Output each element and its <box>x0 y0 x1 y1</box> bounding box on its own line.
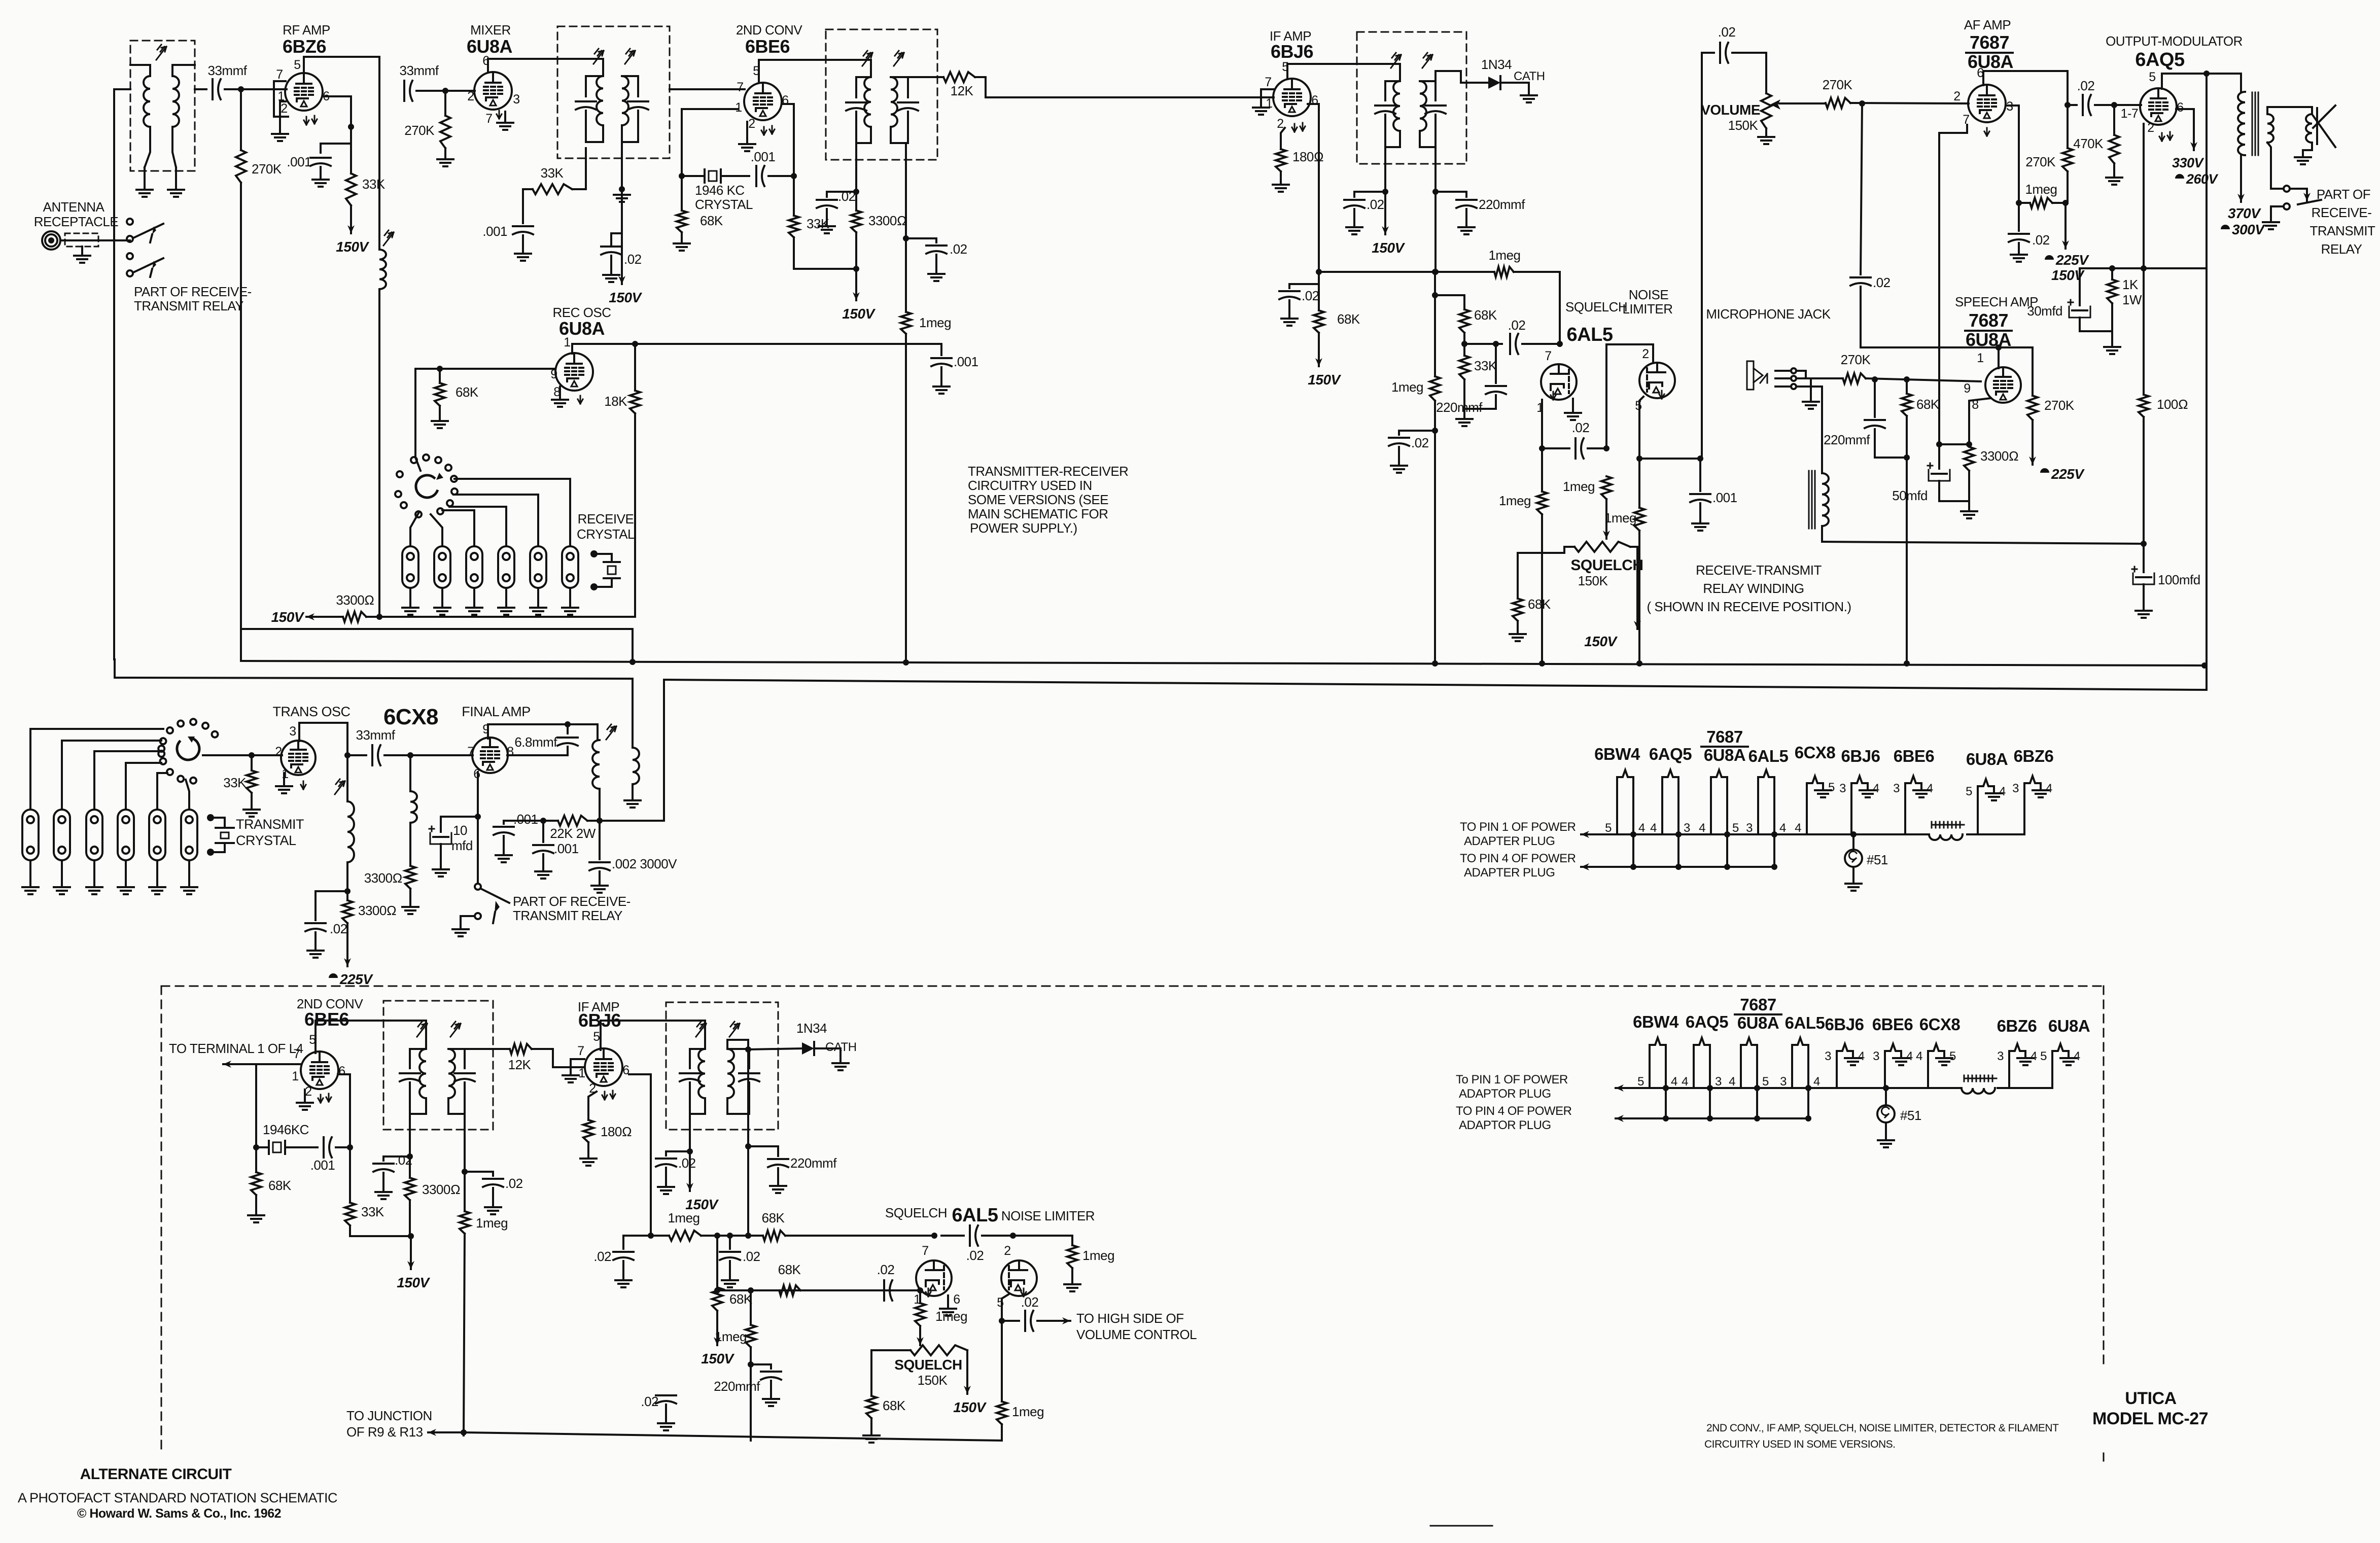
ground <box>1815 790 1831 797</box>
68K label <box>268 1178 292 1193</box>
note CIRCUITRY USED IN <box>968 478 1092 493</box>
pin 1 <box>564 335 570 349</box>
svg-text:3300Ω: 3300Ω <box>422 1182 460 1197</box>
pin 1 <box>1977 351 1983 365</box>
wire <box>1001 1424 1003 1441</box>
svg-text:68K: 68K <box>1474 307 1497 323</box>
wire <box>2303 143 2312 150</box>
svg-text:PART OF: PART OF <box>2317 187 2370 202</box>
ground <box>1064 1268 1080 1291</box>
pin 2 <box>1953 89 1960 103</box>
RELAY label <box>2321 241 2362 257</box>
bus pin1 <box>1581 831 1929 838</box>
wire <box>1906 416 1908 663</box>
junction <box>1697 455 1703 462</box>
junction <box>748 1361 754 1367</box>
wire <box>1385 81 1400 147</box>
junction <box>462 1169 468 1175</box>
ground <box>2263 222 2279 229</box>
wire <box>681 109 683 211</box>
filament 6U8A <box>1741 1038 1757 1118</box>
ANTENNA RECEPTACLE label <box>34 199 119 229</box>
svg-text:300V: 300V <box>2232 222 2265 237</box>
svg-text:.02: .02 <box>1411 435 1429 450</box>
svg-text:5: 5 <box>1637 1075 1644 1089</box>
wire <box>256 1063 301 1065</box>
wire to socket3 <box>442 510 474 546</box>
ground <box>770 1168 786 1193</box>
150V label <box>1584 634 1618 649</box>
capacitor 50mfd <box>1928 444 1950 501</box>
68K label <box>700 213 723 228</box>
ground <box>402 889 418 914</box>
svg-text:OF R9 & R13: OF R9 & R13 <box>346 1424 423 1440</box>
svg-text:150V: 150V <box>1372 240 1405 256</box>
svg-text:TO JUNCTION: TO JUNCTION <box>346 1408 432 1423</box>
svg-text:.001: .001 <box>310 1158 335 1173</box>
#51 label <box>1900 1108 1921 1123</box>
6AL5 label <box>1567 324 1613 345</box>
wire <box>621 189 623 243</box>
antenna receptacle <box>42 231 60 250</box>
pin 3 <box>1780 1075 1787 1089</box>
NOISE label <box>1629 287 1669 302</box>
270K label <box>2025 154 2056 169</box>
wire <box>60 239 130 241</box>
resistor 1meg <box>669 1231 701 1241</box>
junction <box>1663 1115 1669 1121</box>
note POWER SUPPLY.) <box>970 520 1077 536</box>
wire <box>1318 284 1320 310</box>
svg-text:.001: .001 <box>554 841 579 856</box>
SQUELCH pot label <box>1570 557 1643 574</box>
ground <box>248 1195 264 1222</box>
ground <box>615 1261 632 1287</box>
wire cathode <box>280 101 286 133</box>
ground <box>624 800 641 808</box>
wire grid line <box>415 368 555 370</box>
svg-text:6BZ6: 6BZ6 <box>283 36 326 57</box>
svg-text:( SHOWN IN RECEIVE POSITION.): ( SHOWN IN RECEIVE POSITION.) <box>1647 599 1851 614</box>
wire AGC vertical <box>240 89 242 661</box>
wire <box>750 1347 752 1441</box>
pin 5 <box>1282 60 1288 74</box>
pin 5 <box>1949 1049 1956 1063</box>
resistor 3300 <box>405 1178 415 1200</box>
diode 1N34 <box>802 1042 814 1055</box>
junction <box>1636 455 1642 462</box>
capacitor T6-b <box>739 1057 759 1114</box>
pin 7 <box>1265 75 1271 89</box>
pin 6 <box>622 1063 629 1077</box>
wire <box>1861 103 1862 274</box>
mic jack plug <box>1747 361 1767 390</box>
svg-text:RECEIVE: RECEIVE <box>578 511 634 527</box>
wire R9R13 vertical <box>464 1234 465 1435</box>
pin 5 <box>2149 70 2155 84</box>
junction <box>1316 269 1322 275</box>
transformer T5 dashed box <box>383 1001 493 1130</box>
copyright line <box>77 1506 281 1521</box>
resistor 470K <box>2109 105 2119 163</box>
svg-text:SQUELCH: SQUELCH <box>885 1205 947 1220</box>
wire <box>1542 447 1569 449</box>
relay winding core <box>1809 471 1815 529</box>
wire plate <box>488 724 598 740</box>
150K label <box>1728 118 1759 133</box>
wire sq grid line <box>717 1289 920 1291</box>
junction <box>1461 341 1467 347</box>
wire pin3 <box>2007 106 2019 203</box>
svg-text:7: 7 <box>485 112 492 126</box>
svg-text:MIXER: MIXER <box>470 22 511 38</box>
pin 4 <box>1858 1049 1865 1063</box>
wire <box>1522 343 1560 345</box>
svg-text:5: 5 <box>593 1030 600 1044</box>
arrow to L4 <box>223 1061 301 1068</box>
junction <box>540 818 546 824</box>
wire <box>1518 547 1574 599</box>
wire <box>410 1049 426 1114</box>
6BW4 label <box>1594 745 1640 763</box>
wire grid <box>670 88 745 90</box>
junction <box>2109 265 2115 271</box>
heater arrow <box>578 396 583 404</box>
resistor 68K <box>866 1396 877 1418</box>
svg-text:.02: .02 <box>1302 288 1319 303</box>
svg-text:225V: 225V <box>339 971 373 987</box>
svg-text:9: 9 <box>1964 381 1970 396</box>
svg-text:RELAY WINDING: RELAY WINDING <box>1703 581 1804 596</box>
svg-text:.02: .02 <box>624 252 642 267</box>
coil driver <box>410 755 417 823</box>
.001 label <box>310 1158 335 1173</box>
6AL5 label <box>1748 747 1789 765</box>
wire <box>1939 443 1969 445</box>
ground <box>563 1075 579 1082</box>
bus A <box>241 629 633 662</box>
6BZ6 label <box>2014 747 2054 765</box>
svg-text:2: 2 <box>2147 121 2154 135</box>
wire grid stub <box>571 1059 584 1074</box>
resistor 68K <box>1513 599 1523 621</box>
junction <box>2141 541 2147 547</box>
pilot lamp #51 <box>1877 1088 1895 1123</box>
trimmer <box>1391 53 1401 68</box>
junction <box>853 266 859 272</box>
capacitor 220mmf <box>761 1372 781 1380</box>
wire <box>586 76 603 142</box>
svg-text:6BE6: 6BE6 <box>304 1009 349 1030</box>
svg-text:NOISE LIMITER: NOISE LIMITER <box>1001 1208 1095 1223</box>
resistor 33K <box>247 755 257 793</box>
pin 6 <box>1977 66 1983 80</box>
svg-text:.02: .02 <box>877 1262 895 1277</box>
squelch pot <box>1574 542 1630 552</box>
pin 3 <box>1997 1049 2004 1063</box>
wire det line <box>727 1040 748 1049</box>
wire sq cathode <box>1541 400 1543 492</box>
svg-text:225V: 225V <box>2055 252 2089 268</box>
3300 label <box>1980 448 2018 464</box>
svg-text:CIRCUITRY USED IN: CIRCUITRY USED IN <box>968 478 1092 493</box>
1meg label <box>476 1215 508 1231</box>
svg-text:6U8A: 6U8A <box>1704 746 1745 764</box>
68K label <box>1474 307 1497 323</box>
junction <box>1805 1115 1811 1121</box>
jack contact <box>1775 368 1796 373</box>
svg-text:150V: 150V <box>701 1351 734 1366</box>
heater arrows <box>318 1094 331 1103</box>
wire plate <box>488 59 603 76</box>
pin 2 <box>589 1081 596 1096</box>
ground <box>1565 399 1581 420</box>
ground <box>552 387 568 407</box>
svg-text:.02: .02 <box>1021 1294 1039 1310</box>
wire <box>1588 447 1606 449</box>
svg-text:A PHOTOFACT STANDARD NOTATI: A PHOTOFACT STANDARD NOTATION SCHEMATIC <box>18 1490 337 1505</box>
note SOME VERSIONS (SEE <box>968 492 1108 507</box>
junction <box>1630 864 1636 870</box>
trimmer <box>335 779 345 794</box>
resistor 3300 <box>851 211 861 232</box>
svg-text:NOISE: NOISE <box>1629 287 1669 302</box>
150V feed arrow <box>306 613 343 620</box>
1W label <box>2122 292 2142 307</box>
svg-text:470K: 470K <box>2073 136 2104 151</box>
wire plate <box>1287 64 1400 81</box>
svg-text:6BZ6: 6BZ6 <box>2014 747 2054 765</box>
wire <box>346 862 348 900</box>
ground <box>2033 790 2049 797</box>
transmit crystal <box>207 814 234 856</box>
svg-text:6BJ6: 6BJ6 <box>1271 41 1313 62</box>
OUTPUT-MODULATOR label <box>2106 33 2243 49</box>
150V label <box>2051 267 2085 283</box>
wire <box>2267 107 2312 114</box>
receive crystal <box>590 550 620 590</box>
2ND CONV label <box>736 22 803 38</box>
wire pin6 <box>338 1074 350 1203</box>
resistor 270K speech <box>2027 347 2038 420</box>
ground <box>614 188 630 202</box>
MODEL MC-27 label <box>2092 1409 2208 1428</box>
wire <box>477 817 479 883</box>
pin 4 <box>1795 821 1801 835</box>
ground <box>1391 447 1407 473</box>
wire <box>871 1350 911 1396</box>
TRANS OSC label <box>272 704 350 719</box>
trimmer <box>894 51 904 66</box>
pin 4 <box>2074 1049 2080 1063</box>
arrow to pot <box>1603 499 1610 539</box>
resistor 1meg <box>460 1211 470 1234</box>
svg-text:TRANSMIT RELAY: TRANSMIT RELAY <box>134 298 243 313</box>
6AL5 label <box>952 1205 998 1226</box>
svg-text:CIRCUITRY USED IN SOME VERSION: CIRCUITRY USED IN SOME VERSIONS. <box>1704 1439 1895 1450</box>
coil osc tank <box>347 755 354 862</box>
wire <box>1013 1236 1072 1245</box>
capacitor .02 <box>1389 438 1409 446</box>
pin 3 <box>2012 782 2019 795</box>
resistor 33K <box>533 184 572 194</box>
svg-text:RF AMP: RF AMP <box>283 22 330 38</box>
alternate box dashed top <box>161 986 2104 987</box>
MICROPHONE JACK label <box>1706 306 1831 322</box>
pin 9 <box>482 722 489 737</box>
svg-text:2: 2 <box>1953 89 1960 103</box>
wire 1K line <box>2080 267 2207 269</box>
svg-text:© Howard W. Sams & Co., Inc. 1: © Howard W. Sams & Co., Inc. 1962 <box>77 1506 281 1521</box>
REC OSC label <box>553 305 611 320</box>
capacitor .02 stray <box>656 1395 676 1404</box>
pin 2 <box>1642 347 1649 361</box>
arrow 150V <box>853 269 860 300</box>
wire <box>316 891 347 920</box>
capacitor 6.8mmf <box>557 724 578 755</box>
svg-text:3: 3 <box>1997 1049 2004 1063</box>
resistor 68K <box>435 369 445 406</box>
svg-text:4: 4 <box>1729 1075 1735 1089</box>
svg-text:1meg: 1meg <box>715 1329 747 1344</box>
pin 6 <box>482 54 489 68</box>
svg-text:6BJ6: 6BJ6 <box>1825 1015 1864 1034</box>
junction <box>461 1429 467 1435</box>
pin 9 <box>550 367 557 381</box>
6BZ6 label <box>283 36 326 57</box>
wire winding to 100mfd <box>1822 542 2144 544</box>
svg-text:150V: 150V <box>953 1399 987 1415</box>
resistor 270K <box>440 116 450 148</box>
coil T3 primary <box>864 77 871 127</box>
wire <box>906 238 936 242</box>
.02 label <box>1572 420 1590 435</box>
68K label <box>456 384 479 400</box>
arrow 225V <box>344 923 351 966</box>
crystal socket <box>118 810 134 860</box>
filament 6BW4 <box>1617 770 1633 867</box>
junction <box>407 752 413 758</box>
svg-text:.02: .02 <box>743 1249 760 1264</box>
svg-text:50mfd: 50mfd <box>1892 488 1928 503</box>
tube V9 trans osc <box>281 741 316 775</box>
.02 label <box>966 1248 984 1263</box>
svg-text:150V: 150V <box>842 306 876 322</box>
pin 4 <box>1729 1075 1735 1089</box>
wire grid stub <box>1261 89 1274 107</box>
svg-text:CATH: CATH <box>1514 69 1545 83</box>
150K label <box>918 1373 948 1388</box>
pin 2 <box>275 745 282 759</box>
3300 label <box>868 213 906 228</box>
junction <box>344 752 351 758</box>
svg-text:LIMITER: LIMITER <box>1622 301 1672 317</box>
trimmer <box>1422 53 1432 68</box>
7687 label <box>1701 727 1748 747</box>
junction <box>407 1153 413 1160</box>
svg-text:1meg: 1meg <box>1391 379 1423 395</box>
svg-text:mfd: mfd <box>451 838 473 853</box>
ground <box>674 232 690 251</box>
heater arrow <box>301 781 306 789</box>
capacitor .002 3000V <box>589 821 610 870</box>
wire <box>727 1049 749 1114</box>
7687 label <box>1965 310 2012 331</box>
svg-text:100mfd: 100mfd <box>2158 572 2200 587</box>
capacitor T5-a <box>400 1057 420 1114</box>
crystal socket <box>466 546 482 588</box>
resistor 3300 <box>405 823 415 889</box>
svg-text:68K: 68K <box>456 384 479 400</box>
wire xtal2 line5 <box>157 773 167 810</box>
svg-text:6AQ5: 6AQ5 <box>2135 49 2185 71</box>
filament 6BZ6 <box>2024 776 2041 834</box>
arrow 150V <box>714 1311 721 1345</box>
svg-text:33K: 33K <box>1474 358 1497 373</box>
wire left main vertical <box>113 89 115 659</box>
svg-text:6U8A: 6U8A <box>467 36 513 57</box>
junction <box>745 1143 751 1149</box>
svg-text:4: 4 <box>1671 1075 1677 1089</box>
svg-text:ALTERNATE CIRCUIT: ALTERNATE CIRCUIT <box>80 1466 232 1483</box>
3300 label <box>364 870 402 886</box>
svg-text:AF AMP: AF AMP <box>1964 17 2011 32</box>
pin 5 <box>294 58 300 72</box>
wire 1meg det drop <box>750 1290 752 1325</box>
svg-text:6: 6 <box>2177 100 2183 115</box>
.02 label <box>593 1249 611 1264</box>
wire <box>523 189 533 223</box>
filament 6U8A <box>1711 770 1727 867</box>
ground <box>307 932 324 958</box>
6CX8 label <box>383 705 438 729</box>
junction <box>1630 831 1636 837</box>
wire pin6 <box>323 96 351 127</box>
SQUELCH label <box>1565 299 1627 314</box>
pin 2 <box>467 89 474 103</box>
.001 label <box>751 149 776 164</box>
pin 6 <box>473 767 480 781</box>
wire <box>975 77 1274 97</box>
wire <box>1796 387 1822 473</box>
pin 7 <box>577 1044 584 1058</box>
ground <box>658 1405 674 1430</box>
svg-text:RECEPTACLE: RECEPTACLE <box>34 214 119 229</box>
bus C right segment <box>664 680 2204 690</box>
svg-text:150V: 150V <box>1308 372 1341 388</box>
.001 label <box>1712 490 1737 505</box>
junction <box>1754 1085 1760 1091</box>
capacitor T4-b <box>1425 89 1446 147</box>
.02 label <box>624 252 642 267</box>
junction <box>249 752 255 758</box>
pin 3 <box>1825 1049 1831 1063</box>
crystal socket <box>530 546 546 588</box>
svg-text:18K: 18K <box>604 394 627 409</box>
wire <box>905 334 907 662</box>
junction <box>1557 341 1563 347</box>
ground <box>1803 378 1819 409</box>
junction <box>1675 831 1682 837</box>
SQUELCH label <box>885 1205 947 1220</box>
junction <box>1904 660 1910 667</box>
tube V13b noise limiter diode <box>1001 1260 1037 1296</box>
pin 7 <box>485 112 492 126</box>
NOISE LIMITER label <box>1001 1208 1095 1223</box>
TO TERMINAL 1 OF L4 label <box>169 1041 303 1056</box>
svg-text:TO PIN 1 OF POWER: TO PIN 1 OF POWER <box>1460 820 1576 834</box>
filament 6BW4 <box>1650 1038 1666 1118</box>
